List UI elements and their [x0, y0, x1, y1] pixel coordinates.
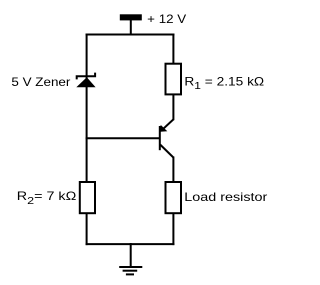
svg-text:Load resistor: Load resistor: [184, 190, 267, 204]
svg-text:+ 12 V: + 12 V: [147, 12, 186, 26]
svg-text:5 V Zener: 5 V Zener: [11, 75, 70, 89]
